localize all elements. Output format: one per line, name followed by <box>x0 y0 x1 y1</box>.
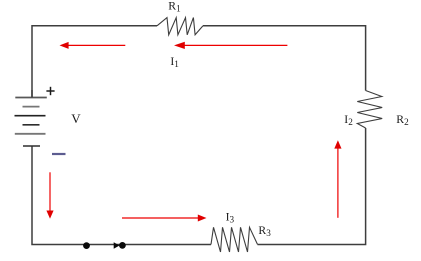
wire bottom-right segment <box>258 128 366 245</box>
wire top-left segment <box>32 26 157 97</box>
current arrow down (left branch) <box>46 172 53 219</box>
minus sign <box>52 153 66 155</box>
plate short 6 (- terminal) <box>23 145 40 147</box>
plate short 4 <box>23 124 40 126</box>
junction dot A <box>83 242 90 249</box>
resistor R3 <box>211 227 258 252</box>
junction dot B <box>119 242 126 249</box>
wire left-bottom segment <box>32 146 211 244</box>
plate long 5 <box>15 133 46 135</box>
current arrow up (right branch) <box>334 140 341 218</box>
wire direction marker triangle <box>114 242 120 249</box>
battery V <box>15 90 47 146</box>
resistor R2 <box>357 91 382 129</box>
plate long 3 <box>15 115 46 117</box>
current arrow I1 right (inner) <box>174 42 287 49</box>
resistor R1 <box>157 18 203 35</box>
wire stub to plate 1 <box>31 90 33 98</box>
current arrow I1 left (outer) <box>60 42 126 49</box>
wire top-right segment <box>203 26 366 91</box>
current arrow right (bottom branch) <box>122 215 207 222</box>
svg-text:V: V <box>71 111 81 126</box>
plate long 1 (+ terminal) <box>15 97 47 99</box>
plate short 2 <box>23 106 40 108</box>
plus sign <box>46 87 54 95</box>
